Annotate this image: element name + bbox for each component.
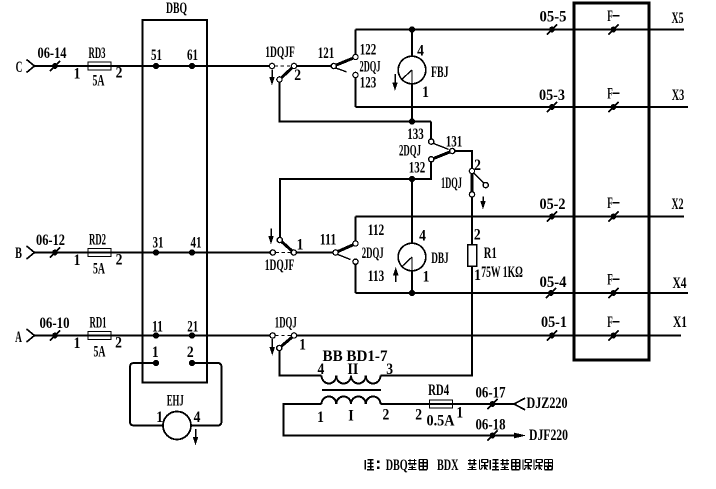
wire A input (35, 335, 89, 337)
svg-text:B: B (15, 245, 22, 262)
svg-text:0.5A: 0.5A (427, 413, 455, 430)
junction DBJ wire/132 feed (409, 176, 415, 182)
svg-text:4: 4 (318, 361, 325, 378)
connector box F (574, 3, 649, 360)
svg-text:F: F (607, 272, 613, 289)
transformer winding I (322, 397, 381, 405)
terminal 05-4 (546, 288, 556, 298)
node 31 (153, 249, 159, 255)
svg-text:EHJ: EHJ (167, 393, 184, 410)
svg-text:61: 61 (187, 47, 198, 64)
wire 132 drop to feed line (280, 162, 431, 238)
wire 41 to 1DQJF row B (192, 252, 270, 254)
svg-text:1: 1 (297, 237, 304, 254)
wire 123 down to X3 rail (355, 78, 357, 107)
svg-text:RD3: RD3 (89, 45, 106, 62)
svg-text:2: 2 (294, 67, 301, 84)
svg-text:112: 112 (368, 222, 385, 239)
svg-text:F: F (607, 314, 613, 331)
transformer winding II (322, 376, 381, 384)
svg-text:1DQJF: 1DQJF (265, 44, 295, 61)
svg-text:06-14: 06-14 (38, 45, 67, 62)
svg-text:4: 4 (194, 409, 201, 426)
svg-text:2DQJ: 2DQJ (362, 245, 384, 262)
wire RD1 to DBQ (88, 335, 192, 337)
svg-text:111: 111 (320, 232, 337, 249)
svg-text:1: 1 (456, 405, 463, 422)
svg-text:5A: 5A (93, 261, 105, 278)
svg-text:1: 1 (156, 409, 163, 426)
wire 1DQJ to R1 (471, 197, 473, 245)
svg-text:1: 1 (317, 409, 324, 426)
wire 1DQJ blade to winding II terminal 4 (279, 351, 321, 376)
svg-text:RD4: RD4 (428, 382, 449, 399)
terminal 05-5 (547, 24, 557, 34)
wire DBJ top (411, 179, 413, 243)
svg-text:05-3: 05-3 (539, 87, 565, 104)
svg-text:121: 121 (318, 45, 335, 62)
svg-text:2: 2 (474, 227, 481, 244)
drop arrow 1DQJF row B (268, 229, 274, 245)
wire 61 to 1DQJF contact (192, 65, 269, 67)
contact 121/122/123 of 2DQJ (331, 54, 358, 77)
contact 1DQJ (row A) (270, 333, 297, 351)
svg-text:75W 1KΩ: 75W 1KΩ (481, 264, 523, 281)
svg-text:BDX: BDX (437, 457, 459, 474)
svg-text:X3: X3 (672, 87, 685, 104)
drop arrow 1DQJ row A (269, 339, 275, 356)
fuse RD4 (430, 400, 453, 408)
junction FBJ/X5 (409, 26, 415, 32)
svg-text:C: C (16, 59, 23, 76)
svg-text:2: 2 (187, 344, 194, 361)
terminal 05-1 (547, 330, 557, 340)
svg-text:133: 133 (407, 126, 424, 143)
svg-text:1: 1 (423, 269, 430, 286)
terminal 06-10 (50, 330, 60, 340)
svg-text:1: 1 (474, 267, 481, 284)
wire X5 rail (356, 29, 685, 31)
svg-text:X2: X2 (672, 196, 684, 213)
drop arrow 1DQJ middle (480, 197, 486, 210)
svg-text:R1: R1 (484, 245, 497, 262)
wire 1DQJF blade down to 133 feed (280, 82, 432, 121)
contact 2DQJ 131/132/133 (429, 139, 455, 162)
svg-text:41: 41 (191, 235, 202, 252)
svg-text:1: 1 (152, 344, 159, 361)
svg-text:06-18: 06-18 (476, 417, 506, 434)
svg-text:1: 1 (299, 337, 306, 354)
wire 113 down to X4 rail (355, 264, 357, 293)
svg-text:2: 2 (415, 407, 422, 424)
node 41 (189, 249, 195, 255)
svg-text:31: 31 (153, 235, 164, 252)
svg-text:2: 2 (116, 252, 123, 269)
svg-text:51: 51 (151, 47, 162, 64)
svg-text:1: 1 (74, 335, 81, 352)
svg-text:A: A (15, 329, 22, 346)
terminal F X2 (608, 211, 618, 221)
svg-text:05-5: 05-5 (540, 9, 567, 26)
wire RD3 to DBQ (88, 65, 192, 67)
svg-text:X5: X5 (672, 10, 684, 27)
terminal 06-12 (50, 247, 60, 257)
wire terminal 1 stub (130, 363, 163, 426)
drop arrow 1DQJF row C (269, 70, 275, 86)
wire winding I terminal 2 to RD4 (381, 403, 430, 405)
svg-text:21: 21 (187, 319, 198, 336)
wire winding I terminal 1 to DJF line (284, 404, 515, 436)
svg-text:X4: X4 (673, 275, 687, 292)
svg-text:DJF220: DJF220 (529, 427, 568, 444)
fuse RD1 (88, 332, 111, 340)
node 61 (189, 63, 195, 69)
contact 1DQJF (row B) (270, 237, 296, 255)
svg-text:11: 11 (152, 319, 163, 336)
svg-text:DBJ: DBJ (431, 250, 449, 267)
svg-text:DBQ: DBQ (166, 0, 187, 17)
svg-text:RD2: RD2 (89, 232, 106, 249)
svg-text:131: 131 (446, 133, 463, 150)
drop arrow FBJ (392, 74, 398, 91)
svg-text:RD1: RD1 (90, 315, 107, 332)
transformer core (322, 389, 381, 391)
node 21 (189, 332, 195, 338)
note text (365, 457, 552, 474)
junction FBJ/133 feed (409, 118, 415, 124)
svg-text:1: 1 (422, 84, 429, 101)
node 51 (153, 63, 159, 69)
svg-text:05-2: 05-2 (540, 196, 566, 213)
svg-text:05-4: 05-4 (540, 274, 567, 291)
svg-text:123: 123 (360, 75, 377, 92)
svg-text:1: 1 (74, 66, 81, 83)
svg-text:F: F (607, 195, 613, 212)
svg-text:132: 132 (409, 160, 426, 177)
terminal 06-18 (487, 430, 497, 440)
wire DBJ bottom (411, 271, 413, 294)
svg-text:06-12: 06-12 (36, 232, 65, 249)
drop arrow EHJ (193, 429, 199, 446)
wire 122 up to X5 rail (355, 30, 357, 55)
wire 131 to 1DQJ (455, 151, 472, 168)
wire FBJ bottom (411, 84, 413, 122)
terminal 06-14 (50, 61, 60, 71)
node DJF220 arrow (514, 433, 526, 439)
wire 133 drop (430, 122, 432, 140)
terminal F X5 (608, 24, 618, 34)
wire contact to 111 (296, 252, 333, 254)
wire B input (35, 252, 89, 254)
svg-text:2: 2 (115, 335, 122, 352)
svg-text:1DQJ: 1DQJ (441, 175, 462, 192)
svg-text:2DQJ: 2DQJ (360, 59, 381, 76)
wire C input (35, 65, 89, 67)
terminal 05-2 (547, 211, 557, 221)
svg-text:II: II (347, 361, 358, 378)
svg-text:06-17: 06-17 (476, 385, 506, 402)
svg-text:06-10: 06-10 (40, 315, 70, 332)
svg-text:DBQ: DBQ (386, 457, 408, 474)
svg-text:5A: 5A (94, 344, 106, 361)
fuse RD3 (88, 62, 111, 70)
connector chevron B (27, 246, 35, 259)
resistor R1 (468, 245, 477, 267)
wire R1 bottom to winding II (381, 266, 473, 376)
terminal 05-3 (547, 102, 557, 112)
svg-text:1DQJF: 1DQJF (265, 257, 295, 274)
wire X2 corner down to 112 (355, 217, 357, 241)
contact 2DQJ 111/112/113 (333, 241, 358, 264)
wire X1 rail (297, 335, 681, 337)
svg-text:X1: X1 (673, 314, 687, 331)
node 2 (189, 360, 195, 366)
wire X2 rail (356, 216, 685, 218)
contact 1DQJF (row C) (269, 63, 296, 82)
wire RD4 to DJZ220 (430, 403, 515, 405)
svg-text:113: 113 (368, 268, 385, 285)
relay EHJ (163, 412, 191, 440)
wire 21 to 1DQJ row A / X1 rail (192, 335, 270, 337)
wire contact to 121 (297, 65, 331, 67)
svg-text:122: 122 (360, 42, 377, 59)
relay FBJ (398, 56, 426, 84)
svg-text:F: F (607, 86, 613, 103)
svg-text:4: 4 (417, 43, 424, 60)
svg-text:1DQJ: 1DQJ (275, 315, 297, 332)
svg-text:3: 3 (386, 361, 393, 378)
terminal F X1 (608, 330, 618, 340)
svg-text:2: 2 (116, 65, 123, 82)
node 11 (153, 332, 159, 338)
terminal F X4 (608, 288, 618, 298)
svg-text:4: 4 (419, 228, 426, 245)
wire RD2 to DBQ (88, 252, 192, 254)
wire X4 rail (356, 292, 689, 294)
contact 1DQJ middle (469, 168, 488, 197)
pickup arrow DBJ (393, 267, 399, 282)
node 1 (153, 360, 159, 366)
terminal F X3 (608, 102, 618, 112)
junction DBJ/X4 (409, 290, 415, 296)
svg-text:FBJ: FBJ (431, 64, 449, 81)
svg-text:DJZ220: DJZ220 (527, 395, 568, 412)
connector chevron C (27, 60, 35, 73)
svg-text:2: 2 (383, 407, 390, 424)
svg-text:F: F (607, 8, 613, 25)
wire terminal 2 stub (191, 363, 222, 426)
fuse RD2 (88, 249, 111, 257)
svg-text:5A: 5A (93, 73, 105, 90)
connector chevron A (27, 329, 35, 342)
relay DBJ (398, 243, 426, 271)
wire FBJ top (411, 30, 413, 57)
protector DBQ box (143, 20, 208, 383)
terminal 06-17 (487, 399, 497, 409)
svg-text:2DQJ: 2DQJ (399, 143, 421, 160)
svg-text:I: I (348, 408, 354, 425)
svg-text:05-1: 05-1 (541, 314, 567, 331)
node DJZ220 arrow (514, 398, 525, 410)
wire X3 rail (356, 106, 689, 108)
svg-text:1: 1 (74, 252, 81, 269)
